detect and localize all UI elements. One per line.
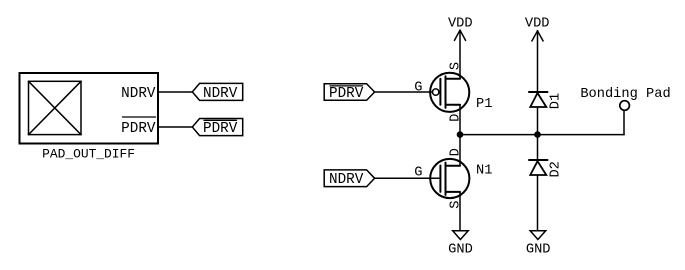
svg-text:P1: P1 (476, 97, 492, 112)
wire riser to bonding pad (623, 111, 625, 135)
power symbol VDD (right) (525, 17, 550, 41)
power symbol GND (left) (448, 231, 473, 258)
svg-text:Bonding Pad: Bonding Pad (580, 87, 670, 102)
svg-text:S: S (448, 62, 463, 70)
global label PDRV (right, overline) (324, 84, 374, 102)
svg-text:S: S (448, 200, 463, 208)
svg-text:PDRV: PDRV (121, 121, 156, 137)
svg-text:GND: GND (448, 243, 473, 258)
power symbol VDD (left) (448, 17, 473, 41)
wire P1 drain to output node (459, 105, 461, 135)
junction at P1 drain (457, 131, 464, 138)
power symbol GND (right) (526, 231, 551, 258)
block symbol X-box (29, 81, 82, 134)
wire output bus to bonding pad (460, 134, 624, 136)
svg-text:VDD: VDD (525, 17, 550, 32)
wire D1 anode to output node (537, 107, 539, 135)
svg-text:D: D (448, 114, 463, 122)
svg-text:D1: D1 (548, 93, 563, 109)
junction at diode branch (534, 131, 541, 138)
wire output node to D2 cathode (537, 135, 539, 160)
wire NDRV label to N1 gate (375, 177, 441, 179)
global label PDRV (left, overline) (192, 119, 242, 137)
wire N1 source to GND (459, 192, 461, 231)
svg-text:D2: D2 (548, 161, 563, 177)
svg-text:VDD: VDD (448, 17, 473, 32)
global label NDRV (left) (192, 83, 242, 101)
svg-text:GND: GND (526, 243, 551, 258)
wire D2 anode to GND (537, 175, 539, 231)
svg-text:PDRV: PDRV (203, 121, 238, 137)
svg-text:G: G (414, 166, 422, 181)
svg-text:G: G (414, 80, 422, 95)
wire VDD to D1 cathode (537, 31, 539, 92)
global label NDRV (right) (324, 170, 374, 188)
block pin name PDRV (with overline) (121, 117, 156, 137)
wire output node to N1 drain (459, 135, 461, 166)
hierarchical block PAD_OUT_DIFF (20, 73, 159, 144)
diode D1 (529, 92, 548, 107)
svg-text:NDRV: NDRV (203, 86, 238, 102)
svg-text:PDRV: PDRV (329, 86, 364, 102)
svg-text:N1: N1 (476, 164, 492, 179)
diode D2 (529, 160, 548, 175)
bonding pad terminal circle (620, 101, 630, 111)
pmos P1 (430, 73, 469, 112)
nmos N1 (430, 159, 469, 198)
wire block NDRV pin to label (158, 91, 193, 93)
wire PDRV label to P1 gate (375, 91, 433, 93)
svg-text:PAD_OUT_DIFF: PAD_OUT_DIFF (42, 146, 135, 161)
svg-text:NDRV: NDRV (329, 172, 364, 188)
svg-text:D: D (448, 148, 463, 156)
wire block PDRV pin to label (158, 126, 193, 128)
svg-text:NDRV: NDRV (121, 86, 156, 102)
wire P1 source to VDD (459, 30, 461, 78)
